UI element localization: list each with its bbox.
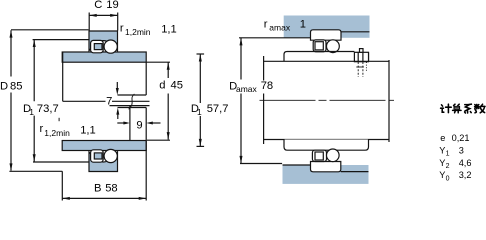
svg-text:1,2min: 1,2min xyxy=(125,27,151,37)
svg-text:r: r xyxy=(264,19,268,31)
svg-text:1,1: 1,1 xyxy=(80,125,96,137)
svg-text:1,2min: 1,2min xyxy=(44,128,70,138)
svg-text:1: 1 xyxy=(446,151,450,158)
svg-text:d: d xyxy=(159,80,165,92)
svg-text:Y: Y xyxy=(439,170,445,180)
svg-text:r: r xyxy=(120,22,124,34)
svg-text:e: e xyxy=(440,133,445,143)
svg-text:9: 9 xyxy=(136,119,142,131)
svg-text:Y: Y xyxy=(439,158,445,168)
svg-text:0: 0 xyxy=(446,176,450,183)
svg-text:3,2: 3,2 xyxy=(459,170,472,180)
svg-text:1: 1 xyxy=(197,107,202,117)
svg-text:2: 2 xyxy=(446,163,450,170)
svg-text:78: 78 xyxy=(261,80,273,92)
svg-text:85: 85 xyxy=(10,80,22,92)
svg-text:1,1: 1,1 xyxy=(161,24,177,36)
svg-text:1: 1 xyxy=(29,107,34,117)
svg-text:45: 45 xyxy=(171,80,183,92)
svg-text:amax: amax xyxy=(236,84,258,94)
svg-text:C: C xyxy=(94,0,102,11)
svg-text:4,6: 4,6 xyxy=(459,158,472,168)
svg-text:1: 1 xyxy=(300,19,306,31)
svg-text:B: B xyxy=(94,183,101,195)
svg-text:7: 7 xyxy=(106,96,112,108)
svg-text:58: 58 xyxy=(105,183,117,195)
svg-text:Y: Y xyxy=(439,145,445,155)
svg-text:3: 3 xyxy=(459,145,464,155)
svg-text:73,7: 73,7 xyxy=(37,103,59,115)
svg-text:57,7: 57,7 xyxy=(207,103,229,115)
svg-text:0,21: 0,21 xyxy=(452,133,470,143)
svg-text:19: 19 xyxy=(106,0,118,11)
svg-text:D: D xyxy=(0,80,8,92)
svg-text:amax: amax xyxy=(269,23,291,33)
svg-text:r: r xyxy=(40,123,44,135)
